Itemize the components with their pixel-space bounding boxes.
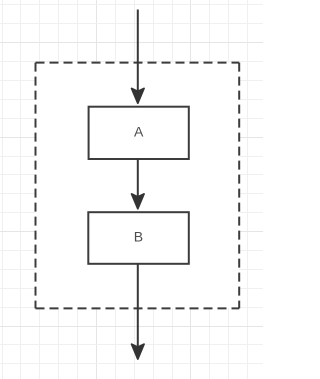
wire: top incoming arrow shaft	[137, 10, 139, 93]
arrowhead into box A	[132, 88, 144, 103]
svg-text:B: B	[134, 228, 143, 244]
dashed container left edge	[35, 63, 37, 309]
arrowhead into box B	[132, 194, 144, 209]
dashed container right edge	[238, 63, 240, 309]
wire: arrow shaft A to B	[137, 159, 139, 197]
svg-text:A: A	[134, 124, 144, 140]
dashed container top edge	[36, 62, 240, 64]
dashed container bottom edge	[36, 307, 240, 309]
box B	[88, 212, 189, 264]
wire: bottom outgoing arrow shaft	[137, 264, 139, 347]
dashed container rectangle fill	[36, 63, 240, 309]
box A	[89, 107, 189, 159]
arrowhead bottom	[132, 344, 144, 359]
